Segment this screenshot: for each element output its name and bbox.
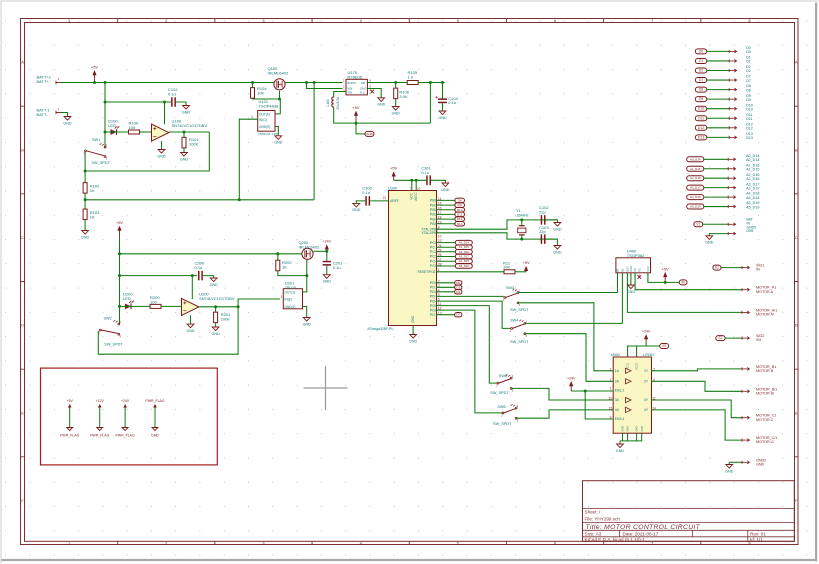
net label IR oval — [679, 280, 687, 285]
svg-text:A5_D19: A5_D19 — [690, 205, 701, 209]
label C300 — [362, 185, 372, 194]
svg-text:Rev: 01: Rev: 01 — [750, 532, 766, 537]
svg-text:NC: NC — [637, 268, 641, 272]
junction EN12 branch — [584, 390, 587, 393]
pin names U101 — [259, 112, 270, 129]
wire R11 to +5V — [515, 271, 526, 273]
pin XTAL2/PB7 — [422, 231, 442, 238]
resistor R105 — [407, 81, 418, 85]
label R102 — [90, 184, 100, 193]
wire PD7 stub — [437, 314, 455, 316]
transistor Q200 — [302, 248, 313, 259]
svg-text:V1: V1 — [696, 222, 700, 226]
title block sheet text — [585, 510, 621, 522]
svg-text:A2_D16: A2_D16 — [690, 176, 701, 180]
wire +24V label stub — [646, 342, 660, 346]
resistor R102 — [83, 183, 87, 194]
op-amp U200 — [182, 298, 199, 315]
svg-text:3: 3 — [262, 541, 264, 546]
svg-text:D8: D8 — [699, 88, 703, 92]
svg-text:17: 17 — [438, 211, 442, 215]
wire R100 to opamp — [140, 131, 152, 133]
junction crystal bottom — [520, 238, 523, 241]
net label D13 — [455, 222, 465, 227]
net label D7 — [455, 313, 462, 317]
svg-text:1.0: 1.0 — [408, 74, 414, 79]
svg-text:+24V: +24V — [121, 399, 130, 403]
junction rail A — [118, 252, 121, 255]
power flag 2 +12V — [90, 399, 110, 438]
junction gate node — [278, 98, 281, 101]
net label A2_D16 row — [687, 176, 704, 181]
svg-text:20: 20 — [417, 186, 421, 190]
svg-text:78L05: 78L05 — [285, 285, 297, 290]
label C301 — [421, 165, 431, 174]
capacitor C201 — [323, 261, 331, 266]
svg-text:A2_D16: A2_D16 — [459, 250, 470, 254]
wire Q100 gate down — [279, 91, 281, 99]
svg-text:SW_SPDT: SW_SPDT — [92, 161, 111, 165]
ground C103 — [553, 246, 562, 255]
svg-text:GND: GND — [629, 266, 633, 272]
net label D8 — [455, 198, 465, 203]
wire R202 bottom to drain — [278, 271, 307, 276]
label C103 — [539, 225, 549, 234]
svg-text:A: A — [795, 60, 798, 65]
svg-text:GND: GND — [756, 462, 765, 466]
svg-text:VCC: VCC — [410, 192, 414, 199]
svg-text:100K: 100K — [221, 317, 231, 322]
pin XTAL1/PB6 — [422, 226, 440, 232]
svg-text:10: 10 — [609, 397, 613, 401]
wire feedback loop channel1 — [85, 132, 209, 171]
wire PD6 to SW6 — [437, 310, 504, 413]
wire SW5 throw2 to driver 3A — [511, 388, 613, 400]
net label D2 — [455, 290, 462, 294]
svg-text:GND: GND — [303, 322, 312, 326]
pin PD6 — [430, 307, 442, 313]
svg-text:PB5: PB5 — [430, 222, 437, 226]
wire SW6 throw2 to driver 4A — [516, 410, 613, 418]
switch SW1 — [84, 143, 108, 161]
label R101 — [189, 137, 199, 146]
svg-text:6: 6 — [554, 18, 556, 23]
wire opamp2 ground — [190, 315, 192, 324]
title block size date rev — [585, 532, 767, 537]
svg-text:GND: GND — [377, 103, 386, 107]
wire SIG1 — [721, 267, 742, 269]
pin names U500 left — [609, 367, 625, 421]
pin PB2 — [430, 206, 456, 212]
wire R105 to C104 — [418, 82, 444, 84]
svg-text:D12: D12 — [698, 126, 704, 130]
wire C200 to ground — [203, 276, 214, 278]
svg-text:GND: GND — [409, 339, 418, 343]
hier pin MOTOR_C — [742, 416, 749, 419]
svg-text:GND: GND — [352, 208, 361, 212]
wire R101 to ground — [183, 148, 185, 153]
svg-text:0.1u: 0.1u — [168, 92, 176, 97]
svg-text:2: 2 — [610, 367, 612, 371]
svg-text:D0: D0 — [699, 49, 703, 53]
svg-text:PWR_FLAG: PWR_FLAG — [60, 433, 80, 437]
svg-text:U300: U300 — [388, 186, 397, 190]
svg-text:MOTOR C: MOTOR C — [756, 418, 774, 422]
wire U400 pin5 to MOTOR_A row — [635, 273, 742, 290]
net label D0 — [455, 281, 462, 285]
svg-text:PB0: PB0 — [430, 199, 437, 203]
ground U201 — [303, 318, 312, 327]
junction opamp2 vplus — [191, 274, 194, 277]
buffer triangles U500 — [626, 368, 632, 412]
svg-text:SW6: SW6 — [497, 405, 505, 409]
svg-text:PC3: PC3 — [430, 255, 437, 259]
capacitor C301 — [426, 175, 431, 185]
svg-text:PWR_FLAG: PWR_FLAG — [145, 399, 165, 403]
svg-text:1Y: 1Y — [644, 369, 649, 373]
wire vplus drop to opamp2 — [191, 276, 193, 300]
svg-text:GND: GND — [81, 235, 90, 239]
svg-text:D12: D12 — [746, 127, 753, 131]
wire C104 stub — [442, 83, 444, 99]
svg-text:E: E — [795, 410, 798, 415]
svg-text:GND: GND — [636, 426, 639, 432]
wire VCC stub — [411, 180, 413, 190]
svg-text:PWR_FLAG: PWR_FLAG — [115, 433, 135, 437]
junction output jog — [237, 305, 240, 308]
pin row SIG1 — [713, 265, 721, 270]
svg-text:7: 7 — [610, 378, 612, 382]
op-amp U100 — [152, 124, 169, 141]
IC U300 microcontroller — [389, 191, 437, 326]
wire BATT- to ground — [61, 113, 68, 117]
pin PC3 — [430, 253, 456, 259]
label R202 — [282, 260, 292, 269]
node BATT- label — [37, 108, 51, 117]
svg-text:+5V: +5V — [91, 64, 99, 69]
svg-text:4A: 4A — [615, 408, 620, 412]
pin PD2 — [430, 288, 440, 294]
wire +24V to EN12 — [571, 390, 613, 392]
svg-text:10K: 10K — [257, 91, 264, 96]
inductor L100 — [332, 97, 334, 107]
svg-text:D9: D9 — [746, 98, 751, 102]
svg-text:1K: 1K — [282, 265, 287, 270]
wire SW pin to inductor — [334, 92, 346, 98]
svg-text:PD2: PD2 — [430, 290, 437, 294]
svg-text:GND: GND — [438, 116, 447, 120]
wire 1Y to MOTOR_B — [652, 369, 743, 371]
resistor R104 — [251, 88, 255, 99]
net label A3_D17 — [455, 254, 472, 259]
wire SW3 throw2 to driver 1A — [518, 303, 613, 371]
svg-text:PB3: PB3 — [430, 213, 437, 217]
svg-text:B2: B2 — [621, 268, 625, 272]
ground U300 — [409, 335, 418, 344]
svg-text:IN(E): IN(E) — [285, 297, 292, 301]
svg-text:U500: U500 — [611, 353, 620, 357]
pin names U500 vcc — [626, 363, 639, 370]
svg-text:GND: GND — [411, 315, 415, 323]
svg-text:IRLML6402: IRLML6402 — [268, 70, 289, 75]
wire GND row — [729, 461, 742, 463]
wire U500 gnd pins — [620, 433, 642, 444]
svg-text:+5V: +5V — [390, 166, 398, 171]
hier pin MOTOR_A — [742, 288, 749, 291]
svg-text:3: 3 — [262, 18, 264, 23]
pin numbers U300 top — [410, 186, 421, 190]
svg-text:D0: D0 — [456, 281, 460, 285]
pin names U300 top — [390, 191, 418, 322]
svg-text:0.1u: 0.1u — [195, 265, 203, 270]
svg-text:+5V: +5V — [116, 220, 124, 225]
pin names U201 — [285, 290, 296, 308]
wire C300 to ground — [356, 201, 365, 204]
net label A5_D19 — [455, 264, 472, 269]
pin PD3 — [430, 293, 440, 299]
svg-text:A4_D18: A4_D18 — [459, 259, 470, 263]
ground C300 — [352, 203, 361, 212]
transistor Q100 — [274, 79, 285, 90]
label R104 — [257, 86, 267, 95]
svg-text:22p: 22p — [539, 229, 546, 234]
label U101 — [259, 99, 280, 108]
wire U101 input to lower rail — [239, 119, 257, 200]
hier pin GND — [742, 461, 749, 464]
title block outline — [583, 481, 795, 542]
net label D10 row — [695, 106, 707, 111]
net label A0_D14 row — [687, 157, 704, 162]
wire D200 to R200 — [120, 305, 150, 307]
svg-text:A1_D15: A1_D15 — [746, 167, 759, 171]
svg-text:28: 28 — [438, 263, 442, 267]
svg-text:A0_D14: A0_D14 — [459, 241, 470, 245]
ground top connector — [705, 236, 714, 245]
label C102 — [168, 87, 178, 96]
ground R106 — [392, 107, 401, 116]
svg-text:+12V: +12V — [96, 399, 105, 403]
svg-text:A1_D15: A1_D15 — [459, 245, 470, 249]
wire R102 to rail — [84, 193, 86, 209]
IC U400 box — [616, 258, 651, 273]
wire opamp output — [169, 131, 210, 133]
wire opamp ground — [161, 141, 163, 149]
pin row SIG2 — [716, 336, 725, 341]
junction diode branch — [104, 131, 107, 134]
wire R200 to opamp2 — [161, 305, 182, 307]
wire RESET to R11 — [437, 271, 504, 273]
svg-text:15: 15 — [438, 202, 442, 206]
hier pin SIG2 — [742, 337, 749, 340]
svg-text:SW4: SW4 — [510, 318, 518, 322]
svg-text:A3_D17: A3_D17 — [459, 255, 470, 259]
svg-text:GND: GND — [210, 283, 219, 287]
svg-text:25: 25 — [438, 248, 442, 252]
svg-text:GND: GND — [616, 449, 625, 453]
svg-text:+5V: +5V — [352, 105, 360, 110]
svg-text:B: B — [795, 147, 798, 152]
label R103 — [90, 210, 100, 219]
svg-text:Date: 2021-06-17: Date: 2021-06-17 — [623, 532, 659, 537]
wire SW4 throw1 to U400 — [525, 322, 623, 324]
svg-text:D8: D8 — [458, 198, 462, 202]
svg-text:GND: GND — [323, 280, 332, 284]
svg-text:MOTOR A: MOTOR A — [756, 290, 773, 294]
wire R201 stub — [215, 307, 217, 313]
wire rail vertical to lower rail — [313, 83, 315, 200]
label U100 — [172, 119, 208, 128]
label Q100 — [268, 66, 289, 75]
wire opamp2 output — [199, 306, 238, 308]
svg-text:10: 10 — [438, 234, 442, 238]
svg-text:14: 14 — [438, 197, 442, 201]
ground C301 — [441, 183, 450, 192]
net label D13 row — [695, 135, 707, 140]
title block kicad id — [585, 537, 764, 542]
junction +5V tap — [355, 122, 358, 125]
svg-text:1K: 1K — [90, 188, 95, 193]
svg-text:SW3: SW3 — [506, 286, 514, 290]
switch SW3 — [503, 289, 521, 308]
ground U175 — [377, 98, 386, 107]
resistor R106 — [394, 88, 398, 99]
svg-text:L293D: L293D — [643, 353, 654, 357]
label R106 — [399, 90, 409, 99]
svg-text:D13: D13 — [457, 222, 463, 226]
wire C104 to ground — [442, 103, 444, 111]
svg-text:A1_D15: A1_D15 — [690, 167, 701, 171]
junction R101 top — [183, 131, 186, 134]
wire R104 top — [252, 83, 254, 88]
svg-text:GND: GND — [180, 157, 189, 161]
ground C104 — [438, 111, 447, 120]
svg-text:+24V: +24V — [642, 330, 651, 334]
junction R104 rail — [251, 81, 254, 84]
svg-text:3.0K: 3.0K — [399, 94, 408, 99]
wire SW3 throw1 to U400 — [518, 292, 618, 294]
svg-text:D1: D1 — [699, 59, 703, 63]
net label D12 — [455, 217, 465, 222]
svg-text:+24V: +24V — [567, 376, 576, 380]
svg-text:SW_SPDT: SW_SPDT — [104, 343, 123, 347]
svg-text:D7: D7 — [746, 79, 751, 83]
pin PB5 — [430, 220, 456, 226]
svg-text:BATT+: BATT+ — [37, 79, 50, 84]
wire lower rail long — [85, 199, 314, 201]
ground C102b — [553, 223, 562, 232]
svg-text:GND: GND — [553, 227, 562, 231]
power +24V channel2 — [323, 240, 332, 252]
svg-text:L100: L100 — [326, 99, 330, 106]
svg-text:D1: D1 — [456, 285, 460, 289]
svg-text:GND: GND — [627, 290, 636, 294]
wire opamp supply branch — [105, 101, 171, 103]
label C200 — [195, 261, 205, 270]
svg-text:PC1: PC1 — [430, 245, 437, 249]
hier pin SIG1 — [742, 266, 749, 269]
junction diode branch 2 — [118, 305, 121, 308]
resistor R201 — [214, 312, 218, 323]
svg-text:PB4: PB4 — [430, 217, 437, 221]
junction supply branch — [104, 101, 107, 104]
pin PC4 — [430, 258, 456, 264]
wire XTAL2 — [437, 233, 558, 239]
svg-text:2A: 2A — [615, 380, 620, 384]
label U201 — [285, 281, 297, 290]
pin PD7 — [430, 311, 442, 317]
svg-text:GND: GND — [366, 132, 374, 136]
power +5V regulator output — [352, 105, 360, 123]
svg-text:100: 100 — [150, 300, 157, 305]
svg-text:SN74LVC1G17DBV: SN74LVC1G17DBV — [172, 123, 208, 128]
svg-text:2: 2 — [165, 541, 167, 546]
svg-text:1: 1 — [610, 387, 612, 391]
svg-text:E: E — [21, 410, 24, 415]
resistor R101 — [182, 137, 186, 148]
svg-text:C: C — [21, 235, 24, 240]
no-connect U400 pin6 — [638, 275, 642, 279]
svg-text:GND: GND — [725, 469, 734, 473]
net label GND oval — [365, 131, 374, 136]
svg-text:ATmega328P-PU: ATmega328P-PU — [367, 327, 394, 331]
wire feedback loop channel2 — [98, 307, 238, 354]
svg-text:100K: 100K — [189, 142, 199, 147]
wire SW1 common down — [84, 171, 86, 183]
svg-text:LED: LED — [108, 123, 116, 128]
resistor R202 — [276, 260, 280, 271]
net label A5_D19 row — [687, 204, 704, 209]
svg-text:1: 1 — [68, 18, 70, 23]
svg-text:B: B — [21, 147, 24, 152]
switch SW4 — [510, 319, 528, 338]
net label A1_D15 row — [687, 166, 704, 171]
wire U400 pin7 to +5V — [648, 273, 679, 283]
svg-text:PC0: PC0 — [430, 241, 437, 245]
svg-text:PD4: PD4 — [430, 299, 437, 303]
label U400 — [627, 249, 645, 258]
pin numbers U400 — [617, 274, 649, 278]
ground U400 — [627, 285, 636, 294]
pin PB1 — [430, 202, 456, 208]
svg-text:24: 24 — [438, 244, 442, 248]
net label D8 row — [695, 87, 707, 92]
svg-text:IN: IN — [756, 268, 760, 272]
svg-text:D11: D11 — [746, 117, 753, 121]
hier pin MOTOR_A/ — [742, 311, 749, 314]
pin PD1 — [430, 284, 440, 290]
svg-text:SW5: SW5 — [499, 374, 507, 378]
wire BATT+ main rail — [61, 82, 343, 84]
svg-text:MOTOR C/: MOTOR C/ — [756, 440, 775, 444]
pin PD0 — [430, 279, 440, 285]
crosshair marker — [304, 366, 348, 410]
ground R201 — [211, 327, 220, 336]
wire R104 bottom to gate node — [253, 98, 281, 114]
net label A3_D17 row — [687, 185, 704, 190]
svg-text:GND: GND — [553, 250, 562, 254]
label U200 — [199, 292, 235, 301]
junction crystal top — [520, 218, 523, 221]
svg-text:RESET/PC6: RESET/PC6 — [418, 270, 436, 274]
svg-text:PB1: PB1 — [430, 203, 437, 207]
wire U400 pin2 down — [621, 273, 623, 324]
wire AVCC stub — [415, 180, 417, 190]
svg-text:PD1: PD1 — [430, 286, 437, 290]
svg-text:26: 26 — [438, 253, 442, 257]
svg-text:AVCC: AVCC — [414, 191, 418, 200]
svg-text:D9: D9 — [458, 203, 462, 207]
svg-text:23: 23 — [438, 239, 442, 243]
